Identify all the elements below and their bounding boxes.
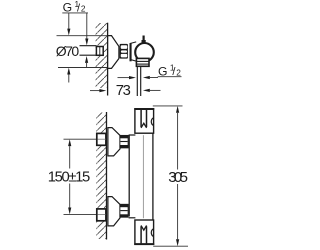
extension line bottom (escutcheon bottom / Ø70) xyxy=(58,67,107,69)
svg-text:150±15: 150±15 xyxy=(48,170,90,186)
hex nut behind wall (side view) xyxy=(96,47,103,56)
escutcheon bottom (plan cone) xyxy=(108,197,120,226)
hex nut behind wall bottom (plan) xyxy=(97,209,106,221)
wall hatching (side view) xyxy=(96,23,108,88)
wall face line (plan view) xyxy=(106,112,108,240)
safety stop button on knob xyxy=(142,36,146,43)
outlet pipe down xyxy=(136,66,138,96)
valve body (side view) xyxy=(130,42,137,61)
leader arrow to inlet stub (G1/2) xyxy=(85,13,88,45)
leader arrow to Ø70 top ext line xyxy=(67,13,70,36)
shower outlet flange xyxy=(136,58,149,66)
inlet pipe stub behind wall xyxy=(80,45,97,47)
hex nut behind wall top (plan) xyxy=(97,133,106,145)
svg-text:2: 2 xyxy=(81,4,86,14)
label G 1/2 right xyxy=(158,63,182,79)
dimension 73: right arrow at pipe xyxy=(143,89,161,92)
Ø70 up arrow (below bottom ext line) xyxy=(67,68,70,83)
svg-text:G: G xyxy=(158,64,167,78)
dimension 150±15 xyxy=(48,139,90,214)
svg-text:Ø70: Ø70 xyxy=(56,43,80,59)
150 ext line top xyxy=(64,138,106,140)
G1/2 pipe arrows (outlet thread) xyxy=(118,76,136,79)
extension line top (escutcheon top / Ø70) xyxy=(57,35,108,37)
svg-text:G: G xyxy=(63,1,72,15)
150 ext line bottom xyxy=(64,213,106,215)
knob cap bottom (plan view) xyxy=(134,220,154,244)
body tube (plan view) xyxy=(129,133,153,219)
label G 1/2 top-left xyxy=(62,0,88,15)
dimension 305 xyxy=(153,106,188,246)
union nut bottom (plan) xyxy=(120,204,128,217)
knob cap top (plan view) xyxy=(134,109,154,133)
svg-text:305: 305 xyxy=(168,169,188,186)
temperature knob (side view circle) xyxy=(135,43,154,62)
wall face line xyxy=(107,23,109,96)
wall hatching (plan view) xyxy=(96,113,106,240)
escutcheon (side view cone) xyxy=(108,36,119,69)
union nut top (plan) xyxy=(120,135,128,148)
svg-text:73: 73 xyxy=(116,83,131,99)
union nut (side view, dark with facet slots) xyxy=(120,44,128,59)
escutcheon top (plan cone) xyxy=(108,128,120,156)
G1/2 stub up arrow (below stub) xyxy=(85,56,88,68)
svg-text:2: 2 xyxy=(176,67,181,77)
dimension 73: left arrow at wall xyxy=(90,89,106,92)
